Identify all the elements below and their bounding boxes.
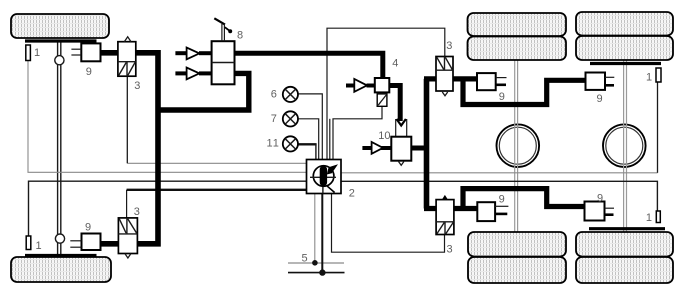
svg-text:1: 1	[34, 47, 40, 59]
svg-text:3: 3	[134, 206, 140, 218]
svg-text:7: 7	[271, 113, 277, 125]
svg-text:3: 3	[447, 244, 453, 256]
svg-text:10: 10	[378, 130, 390, 142]
svg-text:9: 9	[85, 222, 91, 234]
svg-text:9: 9	[597, 93, 603, 105]
svg-text:3: 3	[446, 40, 452, 52]
svg-text:2: 2	[349, 188, 355, 200]
svg-text:1: 1	[646, 212, 652, 224]
svg-text:11: 11	[267, 138, 280, 150]
svg-text:1: 1	[646, 72, 652, 84]
svg-text:9: 9	[499, 91, 505, 103]
svg-text:9: 9	[86, 66, 92, 78]
svg-text:8: 8	[237, 30, 243, 42]
svg-text:9: 9	[597, 193, 603, 205]
svg-text:3: 3	[134, 80, 140, 92]
svg-text:4: 4	[392, 58, 398, 70]
svg-text:9: 9	[499, 194, 505, 206]
svg-text:6: 6	[271, 89, 277, 101]
svg-text:5: 5	[302, 253, 308, 265]
svg-text:1: 1	[36, 240, 42, 252]
